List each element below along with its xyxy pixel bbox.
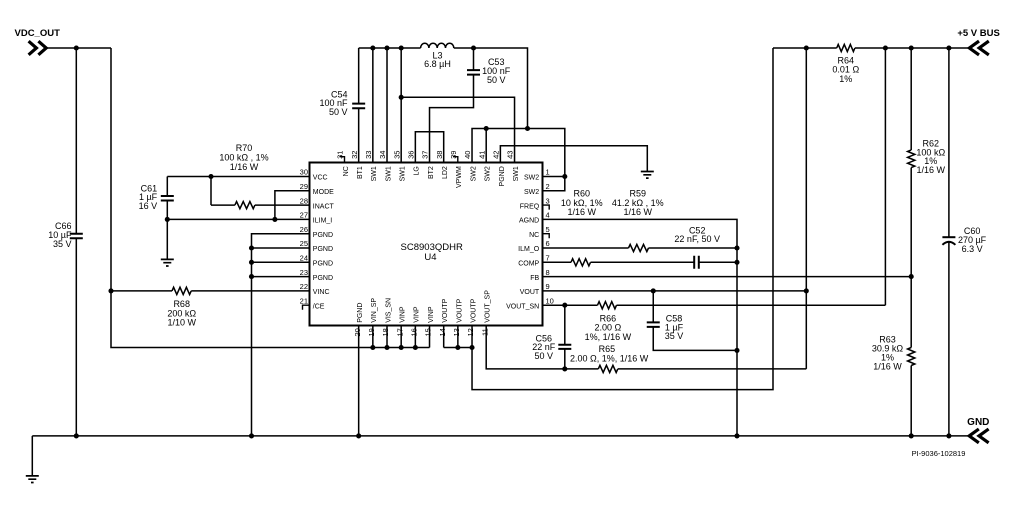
- junction SW2 pin1: [562, 174, 567, 179]
- svg-text:SW1: SW1: [400, 166, 407, 181]
- wire +5V sense branch: [884, 48, 886, 305]
- wire VCC corner down to C61: [166, 177, 168, 197]
- junction SW1 pin35: [399, 45, 404, 50]
- svg-text:22: 22: [300, 282, 308, 291]
- svg-text:PGND: PGND: [313, 261, 333, 268]
- svg-text:8: 8: [546, 268, 550, 277]
- wire R65 right segment: [618, 368, 807, 370]
- wire SW2 pin1: [543, 176, 565, 178]
- junction SW1 pin34: [384, 45, 389, 50]
- svg-text:19: 19: [367, 328, 376, 336]
- junction PGND pin24: [249, 260, 254, 265]
- wire VOUTP route to +5V: [472, 48, 773, 390]
- svg-text:35 V: 35 V: [665, 331, 684, 341]
- svg-text:50 V: 50 V: [535, 351, 554, 361]
- wire C56 lower: [564, 349, 566, 369]
- wire C61 to ground: [166, 201, 168, 260]
- junction C52/AGND: [734, 260, 739, 265]
- junction +5V/C60: [946, 45, 951, 50]
- wire C54 to BT1 pin32: [358, 108, 360, 162]
- junction PGND/GND rail: [249, 433, 254, 438]
- wire SW2 rail and drop: [454, 48, 528, 129]
- svg-text:FREQ: FREQ: [520, 203, 540, 210]
- svg-text:27: 27: [300, 211, 308, 220]
- svg-text:VOUTP: VOUTP: [456, 298, 463, 322]
- svg-text:PGND: PGND: [313, 275, 333, 282]
- junction C66/GND rail: [74, 433, 79, 438]
- svg-text:BT2: BT2: [428, 166, 435, 179]
- junction VOUT/C58: [651, 288, 656, 293]
- svg-text:R65: R65: [599, 344, 616, 354]
- svg-text:PGND: PGND: [499, 166, 506, 186]
- svg-text:41: 41: [477, 151, 486, 159]
- junction C58/AGND vertical: [734, 348, 739, 353]
- svg-text:/CE: /CE: [313, 303, 325, 310]
- svg-text:37: 37: [421, 151, 430, 159]
- wire PGND pin24: [252, 261, 310, 263]
- svg-text:30: 30: [300, 168, 308, 177]
- svg-text:1%, 1/16 W: 1%, 1/16 W: [585, 332, 632, 342]
- svg-text:AGND: AGND: [519, 218, 539, 225]
- svg-text:SW1: SW1: [371, 166, 378, 181]
- svg-text:VDC_OUT: VDC_OUT: [15, 28, 61, 39]
- junction pin 13/VOUTP bracket: [455, 345, 460, 350]
- wire R63 lower: [910, 366, 912, 436]
- wire VOUTP bracket: [444, 347, 472, 349]
- wire C58 lower to AGND: [653, 327, 737, 351]
- resistor R66: [598, 302, 617, 309]
- svg-text:VINC: VINC: [313, 289, 330, 296]
- svg-text:29: 29: [300, 182, 308, 191]
- wire pin 13 drop: [457, 326, 459, 348]
- wire PGND pin23: [252, 276, 310, 278]
- svg-text:1/16 W: 1/16 W: [873, 362, 902, 372]
- svg-text:VINP: VINP: [400, 306, 407, 323]
- svg-text:GND: GND: [967, 417, 989, 428]
- svg-text:PI-9036-102819: PI-9036-102819: [912, 449, 966, 458]
- wire AGND line and vertical: [543, 219, 738, 436]
- svg-text:32: 32: [350, 151, 359, 159]
- svg-text:VINP: VINP: [414, 306, 421, 323]
- junction MODE/ILIM_I: [272, 217, 277, 222]
- junction +5V/VOUT branch: [804, 45, 809, 50]
- junction VCC/R70: [208, 174, 213, 179]
- wire R70 right segment (INACT): [255, 204, 310, 206]
- junction +5V/sense branch: [883, 45, 888, 50]
- ground symbol bottom-left: [26, 476, 39, 483]
- wire R70 left segment: [211, 204, 235, 206]
- wire +5V rail left segment: [773, 47, 837, 49]
- svg-text:13: 13: [452, 328, 461, 336]
- svg-text:10: 10: [546, 296, 554, 305]
- wire pin 18 drop: [386, 326, 388, 348]
- svg-text:VOUT_SP: VOUT_SP: [485, 290, 492, 323]
- wire C60 lower: [948, 243, 950, 436]
- wire pin 14 drop: [443, 326, 445, 348]
- svg-text:SW2: SW2: [524, 175, 539, 182]
- junction VOUT_SN/C56: [562, 303, 567, 308]
- svg-text:16: 16: [410, 328, 419, 336]
- resistor R59: [629, 244, 649, 251]
- wire R60 to C52: [591, 261, 695, 263]
- wire R70 left vertical: [210, 177, 212, 206]
- wire FB line: [543, 276, 912, 278]
- svg-text:7: 7: [546, 254, 550, 263]
- wire R60 left segment: [543, 261, 572, 263]
- inductor L3: [421, 43, 454, 48]
- junction pin 18/VIN line: [384, 345, 389, 350]
- svg-text:BT1: BT1: [357, 166, 364, 179]
- junction +5V/R62: [909, 45, 914, 50]
- svg-text:16 V: 16 V: [139, 201, 158, 211]
- ground symbol below C61: [161, 259, 174, 266]
- resistor R62: [908, 150, 915, 168]
- resistor R68: [172, 287, 191, 294]
- pin 31 no-connect stub: [340, 157, 345, 163]
- wire SW1 jumper to pin43: [401, 97, 514, 162]
- svg-text:2.00 Ω, 1%, 1/16 W: 2.00 Ω, 1%, 1/16 W: [570, 354, 649, 364]
- wire R62 upper: [910, 48, 912, 150]
- svg-text:NC: NC: [529, 232, 539, 239]
- wire SW2 pin41 vertical: [485, 129, 487, 163]
- capacitor C54: [352, 104, 365, 109]
- svg-text:U4: U4: [424, 252, 436, 263]
- svg-text:PGND: PGND: [313, 246, 333, 253]
- svg-text:35 V: 35 V: [53, 239, 72, 249]
- wire C60 upper: [948, 48, 950, 237]
- svg-text:42: 42: [492, 151, 501, 159]
- junction PGND pin25: [249, 245, 254, 250]
- svg-text:VPWM: VPWM: [456, 166, 463, 188]
- wire SW1 pin34 vertical: [386, 48, 388, 163]
- svg-text:31: 31: [336, 151, 345, 159]
- svg-text:NC: NC: [343, 166, 350, 176]
- wire R68 right segment: [191, 290, 309, 292]
- svg-text:MODE: MODE: [313, 189, 334, 196]
- svg-text:VOUT: VOUT: [520, 289, 540, 296]
- junction C53/SW2 rail: [471, 45, 476, 50]
- junction SW1 jumper: [399, 95, 404, 100]
- svg-text:SW1: SW1: [385, 166, 392, 181]
- junction R59/AGND: [734, 245, 739, 250]
- junction FB/R62-R63: [909, 274, 914, 279]
- svg-text:VIN_SP: VIN_SP: [371, 298, 378, 323]
- svg-text:INACT: INACT: [313, 203, 335, 210]
- capacitor C60 (polarized): [942, 236, 955, 238]
- svg-text:SW2: SW2: [524, 189, 539, 196]
- svg-text:33: 33: [364, 151, 373, 159]
- svg-text:1/16 W: 1/16 W: [624, 207, 653, 217]
- svg-text:25: 25: [300, 239, 308, 248]
- wire ILIM_I line: [167, 218, 309, 220]
- pin 3 no-connect stub: [543, 205, 550, 210]
- wire C66 branch upper: [75, 48, 77, 234]
- wire VCC line: [167, 176, 309, 178]
- svg-text:26: 26: [300, 225, 308, 234]
- svg-text:ILM_O: ILM_O: [518, 246, 540, 253]
- capacitor C52: [694, 256, 699, 269]
- svg-text:1%: 1%: [839, 74, 852, 84]
- capacitor C66: [70, 234, 83, 239]
- wire R62-R63 middle: [910, 168, 912, 348]
- wire VOUT_SP pin11 to R65: [486, 326, 598, 369]
- svg-text:12: 12: [466, 328, 475, 336]
- resistor R65: [598, 365, 618, 372]
- wire VOUT line: [543, 290, 807, 292]
- wire LG-LD2 bracket: [415, 132, 443, 163]
- junction SW2 pin41: [484, 126, 489, 131]
- svg-text:PGND: PGND: [313, 232, 333, 239]
- svg-text:PGND: PGND: [357, 303, 364, 323]
- wire R68 left segment: [111, 290, 172, 292]
- junction R63/GND rail: [909, 433, 914, 438]
- junction PGND pin23: [249, 274, 254, 279]
- svg-text:15: 15: [424, 328, 433, 336]
- resistor R70: [235, 202, 255, 209]
- svg-text:FB: FB: [530, 275, 539, 282]
- junction C60/GND rail: [946, 433, 951, 438]
- svg-text:20: 20: [353, 328, 362, 336]
- svg-text:LD2: LD2: [442, 166, 449, 179]
- wire MODE: [275, 191, 310, 220]
- svg-text:COMP: COMP: [518, 261, 539, 268]
- svg-text:1/16 W: 1/16 W: [568, 207, 597, 217]
- svg-text:2: 2: [546, 182, 550, 191]
- wire R59 left segment: [543, 247, 629, 249]
- wire C52 right segment: [699, 261, 737, 263]
- wire VIN vertical and VINP feed line: [111, 48, 430, 348]
- svg-text:VOUT_SN: VOUT_SN: [506, 303, 539, 310]
- pin 21 no-connect stub: [303, 305, 310, 310]
- svg-text:VCC: VCC: [313, 175, 328, 182]
- junction pin 19/VIN line: [370, 345, 375, 350]
- resistor R64: [837, 44, 855, 51]
- ground symbol right of IC: [641, 172, 654, 179]
- svg-text:VINP: VINP: [428, 306, 435, 323]
- wire R59 right segment: [649, 247, 738, 249]
- svg-text:100 kΩ , 1%: 100 kΩ , 1%: [219, 152, 268, 162]
- wire pin 16 drop: [414, 326, 416, 348]
- capacitor C61: [161, 196, 174, 201]
- svg-text:ILIM_I: ILIM_I: [313, 218, 333, 225]
- junction pin 17/VIN line: [399, 345, 404, 350]
- svg-text:50 V: 50 V: [487, 75, 506, 85]
- wire +5V branch to R65: [805, 48, 807, 369]
- svg-text:50 V: 50 V: [329, 107, 348, 117]
- resistor R63: [908, 348, 915, 366]
- svg-text:36: 36: [407, 151, 416, 159]
- wire C53 upper: [473, 48, 475, 70]
- svg-text:1/16 W: 1/16 W: [230, 162, 259, 172]
- svg-text:1/10 W: 1/10 W: [167, 318, 196, 328]
- svg-text:1/16 W: 1/16 W: [917, 165, 946, 175]
- svg-text:28: 28: [300, 196, 308, 205]
- op-amp/IC U4 body (SC8903QDHR): [310, 163, 543, 326]
- junction pin 16/VIN line: [413, 345, 418, 350]
- wire SW2 pins 40 to 1-2: [472, 129, 565, 191]
- pin 39 no-connect stub: [453, 157, 458, 163]
- capacitor C58: [647, 322, 660, 327]
- svg-text:18: 18: [381, 328, 390, 336]
- wire SW1 rail: [359, 47, 421, 49]
- wire pin 19 drop: [372, 326, 374, 348]
- svg-text:34: 34: [378, 151, 387, 159]
- svg-text:6.3 V: 6.3 V: [962, 244, 983, 254]
- svg-text:40: 40: [463, 151, 472, 159]
- svg-text:VOUTP: VOUTP: [442, 298, 449, 322]
- wire VDC_OUT to corner: [46, 47, 111, 49]
- junction VDC/C66: [74, 45, 79, 50]
- svg-text:17: 17: [395, 328, 404, 336]
- wire PGND pin25: [252, 247, 310, 249]
- svg-text:22 nF, 50 V: 22 nF, 50 V: [674, 234, 720, 244]
- junction SW1 pin33: [370, 45, 375, 50]
- wire SW1 pin33 vertical: [372, 48, 374, 163]
- capacitor C53: [467, 70, 480, 75]
- junction C56/R65: [562, 366, 567, 371]
- svg-text:24: 24: [300, 254, 308, 263]
- wire PGND pin26 and vertical: [252, 234, 310, 436]
- svg-text:23: 23: [300, 268, 308, 277]
- junction C61/ILIM_I: [165, 217, 170, 222]
- svg-text:35: 35: [392, 151, 401, 159]
- svg-text:VOUTP: VOUTP: [470, 298, 477, 322]
- wire GND rail left drop: [31, 436, 33, 476]
- svg-text:SW2: SW2: [485, 166, 492, 181]
- junction pin 12/VOUTP bracket: [469, 345, 474, 350]
- svg-text:43: 43: [506, 151, 515, 159]
- svg-text:21: 21: [300, 296, 308, 305]
- svg-text:4: 4: [546, 211, 550, 220]
- junction SW2 rail drop: [525, 126, 530, 131]
- svg-text:9: 9: [546, 282, 550, 291]
- svg-text:VIS_SN: VIS_SN: [385, 298, 392, 323]
- svg-text:LG: LG: [414, 166, 421, 175]
- junction pin20/GND rail: [356, 433, 361, 438]
- wire pin 15 drop: [429, 326, 431, 348]
- svg-text:39: 39: [449, 151, 458, 159]
- port VDC_OUT chevron: [29, 41, 47, 55]
- capacitor C56: [558, 345, 571, 349]
- wire C54 upper: [358, 48, 360, 104]
- resistor R60: [571, 259, 591, 266]
- svg-text:38: 38: [435, 151, 444, 159]
- wire R66 left segment: [543, 304, 598, 306]
- port GND chevron: [969, 429, 988, 443]
- wire pin 17 drop: [400, 326, 402, 348]
- svg-text:3: 3: [546, 196, 550, 205]
- wire C58 upper: [652, 291, 654, 322]
- junction AGND/GND rail: [734, 433, 739, 438]
- junction VIN/R68: [108, 288, 113, 293]
- svg-text:R70: R70: [236, 143, 253, 153]
- wire PGND pin42 to ground: [500, 146, 647, 171]
- svg-text:SW2: SW2: [470, 166, 477, 181]
- wire GND rail: [32, 435, 968, 437]
- svg-text:6.8 µH: 6.8 µH: [424, 59, 451, 69]
- svg-text:6: 6: [546, 239, 550, 248]
- svg-text:5: 5: [546, 225, 550, 234]
- junction VOUT/+5V branch: [804, 288, 809, 293]
- port +5V BUS chevron: [969, 41, 988, 55]
- wire R66 right segment: [617, 304, 886, 306]
- svg-text:14: 14: [438, 328, 447, 336]
- wire C53 to BT2 pin37: [430, 75, 474, 163]
- wire pin 20 PGND drop: [358, 326, 360, 436]
- svg-text:+5 V BUS: +5 V BUS: [957, 28, 1000, 39]
- svg-text:1: 1: [546, 168, 550, 177]
- wire SW1 pin35 vertical: [400, 48, 402, 163]
- wire C56 upper: [564, 305, 566, 344]
- wire +5V rail right segment: [855, 47, 970, 49]
- pin 5 no-connect stub: [543, 234, 550, 239]
- wire C66 branch lower: [75, 238, 77, 436]
- svg-text:SW1: SW1: [513, 166, 520, 181]
- svg-text:11: 11: [480, 328, 489, 336]
